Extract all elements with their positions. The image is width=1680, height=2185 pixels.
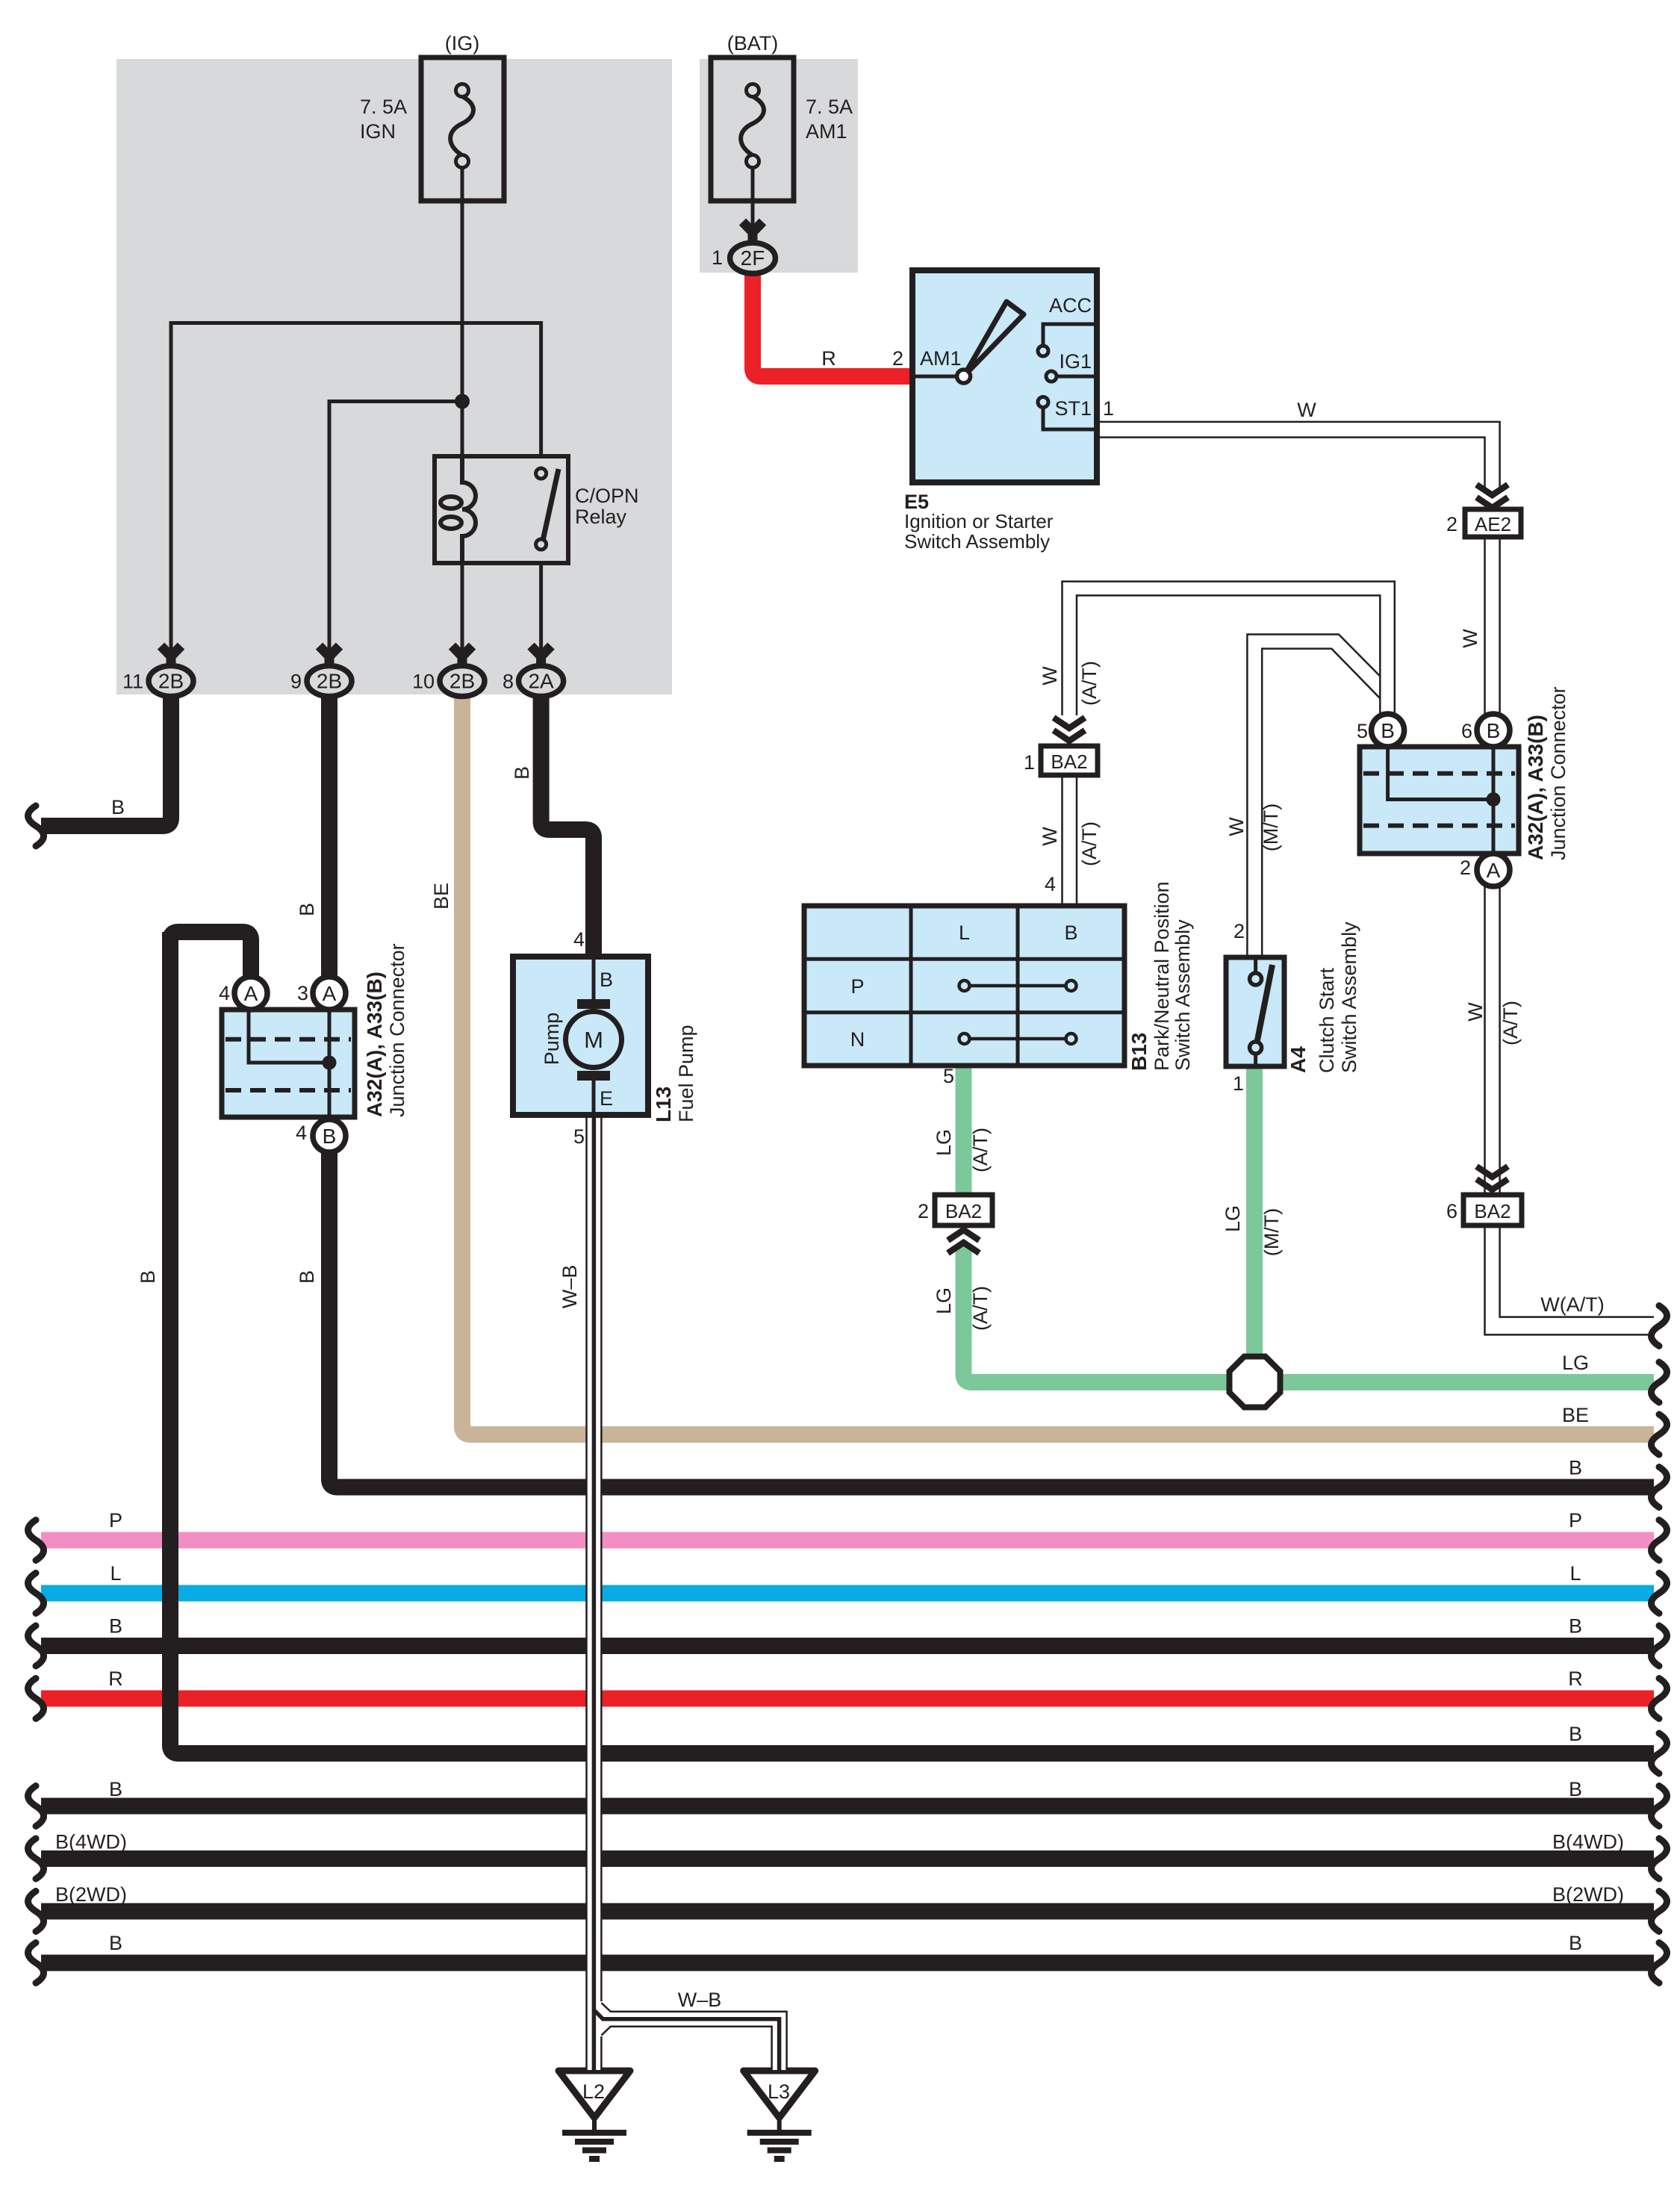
svg-text:L13: L13: [652, 1087, 675, 1122]
svg-text:2: 2: [1460, 857, 1471, 879]
svg-text:R: R: [821, 347, 836, 370]
svg-text:Ignition or Starter: Ignition or Starter: [904, 510, 1054, 532]
connector oval 8 2A: [519, 646, 564, 697]
svg-text:Relay: Relay: [575, 506, 627, 528]
wire LG(A/T) from B13 pin5 to 2-BA2: [956, 1066, 972, 1193]
svg-text:AM1: AM1: [806, 120, 847, 143]
svg-text:B: B: [1487, 719, 1501, 742]
svg-text:B(2WD): B(2WD): [55, 1883, 127, 1906]
svg-text:AE2: AE2: [1475, 513, 1511, 535]
svg-text:L: L: [1569, 1562, 1581, 1585]
wire LG(M/T) from A4 pin1 to octagon joint: [1246, 1065, 1263, 1379]
switch B13 park/neutral position: [804, 906, 1124, 1066]
gray block left (junction block 2): [116, 59, 672, 694]
svg-text:L: L: [110, 1562, 121, 1585]
svg-text:BE: BE: [430, 883, 452, 910]
svg-text:BE: BE: [1562, 1404, 1589, 1426]
wire W-B white underlay from fuel pump to ground L2: [587, 1118, 601, 2070]
svg-text:LG: LG: [1562, 1352, 1589, 1374]
connector box 1 BA2 with arrow: [1041, 718, 1098, 775]
gray block right (BAT fuse block): [700, 59, 858, 273]
connector circle pin2 A right junction: [1477, 854, 1510, 886]
svg-text:4: 4: [573, 928, 585, 951]
svg-text:7. 5A: 7. 5A: [806, 96, 853, 118]
fuel pump L13: [513, 957, 648, 1115]
wire break curls right edge: [1652, 1306, 1667, 1983]
fuse AM1 7.5A: [711, 57, 794, 201]
svg-text:6: 6: [1461, 720, 1472, 742]
svg-text:8: 8: [503, 671, 514, 693]
wire W from E5 ST1 to AE2 (outline pair): [1097, 422, 1500, 489]
svg-text:Clutch Start: Clutch Start: [1316, 967, 1338, 1073]
svg-text:2: 2: [1233, 920, 1245, 942]
svg-text:2B: 2B: [158, 670, 184, 693]
connector box 6 BA2 with arrow: [1463, 1166, 1522, 1225]
wire W(M/T) from clutch switch A4 up and over to pin5 wire: [1247, 635, 1379, 957]
wire bus L (blue): [41, 1585, 1654, 1602]
connector circle pin5 B right junction: [1372, 714, 1404, 747]
wire bus LG (green) from LG(A/T) vertical to right edge: [964, 1244, 1655, 1382]
svg-text:W–B: W–B: [559, 1265, 581, 1309]
wire bus B(4WD): [41, 1850, 1654, 1867]
wire W-B branch edges and stripe to L3: [601, 2003, 786, 2071]
svg-text:W: W: [1039, 827, 1061, 846]
svg-text:LG: LG: [1222, 1205, 1244, 1232]
svg-text:A4: A4: [1287, 1046, 1310, 1073]
svg-text:R: R: [108, 1667, 123, 1690]
svg-text:BA2: BA2: [1051, 750, 1087, 773]
svg-text:(M/T): (M/T): [1260, 804, 1282, 851]
wire B from 9-2B to junction connector pin3 A: [321, 681, 337, 978]
wire thin branch to 9-2B: [329, 402, 462, 662]
svg-text:B(2WD): B(2WD): [1552, 1883, 1624, 1906]
svg-text:1: 1: [1024, 751, 1035, 774]
svg-text:P: P: [109, 1509, 122, 1532]
svg-text:IGN: IGN: [360, 120, 396, 143]
wire W from AE2 to junction connector pin6 B: [1484, 537, 1486, 714]
wire thin from IG fuse to relay coil: [461, 167, 464, 459]
wire bus B (black) from 9-2B junction-connector pin4B down then right: [329, 1152, 1654, 1488]
svg-text:B: B: [1569, 1778, 1582, 1800]
junction connector A32(A),A33(B) right: [1360, 747, 1519, 854]
svg-text:B(4WD): B(4WD): [1552, 1831, 1624, 1853]
svg-text:1: 1: [712, 246, 723, 269]
wire bus B row10: [41, 1798, 1654, 1815]
svg-text:LG: LG: [933, 1129, 955, 1156]
svg-text:IG1: IG1: [1059, 350, 1092, 373]
svg-text:R: R: [1568, 1667, 1583, 1690]
svg-text:A: A: [244, 982, 258, 1005]
svg-text:L3: L3: [768, 2080, 790, 2103]
svg-text:L2: L2: [582, 2080, 605, 2103]
svg-text:B: B: [111, 796, 125, 818]
svg-text:BA2: BA2: [1474, 1200, 1511, 1222]
wire bus B(2WD): [41, 1903, 1654, 1920]
svg-text:L: L: [959, 921, 970, 944]
svg-text:B13: B13: [1127, 1033, 1151, 1071]
svg-text:(A/T): (A/T): [969, 1128, 992, 1172]
connector circle pin4 B left junction: [313, 1119, 346, 1152]
svg-text:B: B: [600, 969, 613, 991]
junction connector A32(A),A33(B) left: [222, 1010, 355, 1117]
wire R red from 2F to E5 AM1: [753, 269, 912, 376]
node octagon splice joint: [1230, 1357, 1281, 1408]
svg-text:B: B: [1381, 719, 1395, 742]
svg-text:B: B: [296, 1270, 318, 1284]
svg-text:Pump: Pump: [541, 1013, 563, 1066]
svg-text:ACC: ACC: [1049, 294, 1092, 317]
svg-text:2A: 2A: [528, 670, 554, 693]
svg-text:B: B: [511, 766, 533, 780]
svg-text:W: W: [1459, 629, 1481, 648]
wire bus B row9 from long left vertical: [170, 932, 1654, 1753]
svg-text:W–B: W–B: [678, 1989, 722, 2011]
wire bus R (red): [41, 1691, 1654, 1707]
svg-text:B: B: [137, 1270, 159, 1284]
ground L2: [559, 2071, 630, 2159]
svg-text:1: 1: [1233, 1072, 1244, 1095]
svg-text:7. 5A: 7. 5A: [360, 96, 407, 118]
svg-text:B: B: [1569, 1932, 1582, 1954]
svg-text:2: 2: [892, 347, 903, 370]
svg-text:A32(A), A33(B): A32(A), A33(B): [1524, 715, 1547, 860]
wire bus P (pink): [41, 1532, 1654, 1549]
svg-text:W: W: [1297, 399, 1316, 421]
wire W(A/T) from 1-BA2 down to B13 pin4: [1061, 775, 1063, 904]
svg-text:10: 10: [412, 671, 435, 693]
svg-text:(IG): (IG): [445, 32, 480, 55]
wire W(A/T) from 6-BA2 to right edge bus: [1485, 1225, 1655, 1334]
wire thin relay switch bottom to 8-2A: [539, 563, 543, 662]
svg-text:Junction Connector: Junction Connector: [1547, 686, 1569, 860]
svg-text:5: 5: [573, 1125, 585, 1148]
svg-text:AM1: AM1: [920, 347, 962, 370]
wire W-B edges and stripe from fuel pump: [585, 1115, 588, 2071]
wire W(A/T) loop from 1-BA2 up over to junction pin5 B: [1063, 582, 1395, 715]
svg-text:3: 3: [297, 982, 308, 1004]
svg-text:2F: 2F: [741, 246, 765, 270]
svg-text:Switch Assembly: Switch Assembly: [904, 530, 1050, 553]
svg-text:Fuel Pump: Fuel Pump: [675, 1025, 697, 1122]
connector oval 9 2B: [307, 646, 352, 697]
svg-text:(A/T): (A/T): [1078, 661, 1101, 706]
svg-text:B: B: [323, 1125, 337, 1148]
connector oval 1 2F: [730, 222, 776, 273]
wire W(A/T) from junction pin2 A to 6-BA2: [1484, 886, 1486, 1193]
svg-text:Switch Assembly: Switch Assembly: [1338, 921, 1360, 1073]
svg-text:W: W: [1039, 666, 1061, 686]
wire thin from AM1 fuse to 2F: [751, 167, 755, 246]
svg-text:B(4WD): B(4WD): [55, 1831, 127, 1853]
svg-text:W: W: [1464, 1002, 1487, 1022]
svg-text:W(A/T): W(A/T): [1540, 1293, 1604, 1316]
svg-text:A: A: [1487, 859, 1501, 882]
svg-text:W: W: [1225, 817, 1248, 836]
fuse IGN 7.5A: [421, 57, 504, 201]
svg-text:BA2: BA2: [945, 1200, 982, 1222]
svg-text:B: B: [109, 1932, 122, 1954]
svg-text:2: 2: [1446, 513, 1457, 535]
svg-text:(A/T): (A/T): [969, 1286, 992, 1331]
svg-text:4: 4: [296, 1122, 307, 1144]
svg-text:(M/T): (M/T): [1260, 1208, 1283, 1256]
svg-text:4: 4: [1045, 873, 1056, 895]
svg-text:B: B: [1064, 921, 1077, 944]
svg-text:5: 5: [943, 1065, 954, 1087]
connector oval 11 2B: [149, 646, 193, 697]
wire B from 11-2B down and left to break: [41, 681, 171, 826]
connector box 2 AE2 with arrow: [1465, 485, 1521, 537]
svg-text:Switch Assembly: Switch Assembly: [1172, 919, 1194, 1071]
svg-text:Junction Connector: Junction Connector: [386, 943, 408, 1117]
switch A4 clutch start: [1226, 957, 1284, 1066]
svg-text:B: B: [296, 903, 318, 916]
svg-text:A: A: [323, 982, 337, 1005]
connector oval 10 2B: [440, 646, 485, 697]
svg-text:5: 5: [1357, 720, 1368, 742]
svg-text:2B: 2B: [449, 670, 475, 693]
wire long black B: 11-2B stub up to inverted U: [170, 932, 251, 978]
svg-text:M: M: [584, 1027, 603, 1053]
svg-text:11: 11: [122, 671, 143, 693]
svg-text:2B: 2B: [317, 670, 342, 693]
svg-text:1: 1: [1103, 397, 1114, 420]
svg-text:6: 6: [1446, 1200, 1457, 1222]
wire bus B bottom: [41, 1955, 1654, 1971]
svg-text:A32(A), A33(B): A32(A), A33(B): [363, 972, 386, 1117]
wire bus B (black, third of lower mid group): [41, 1638, 1654, 1654]
svg-text:4: 4: [219, 982, 230, 1004]
connector circle pin3 A left junction: [313, 977, 346, 1010]
relay C/OPN: [435, 456, 568, 563]
svg-text:2: 2: [918, 1200, 929, 1222]
svg-text:C/OPN: C/OPN: [575, 485, 639, 507]
svg-text:B: B: [109, 1778, 122, 1800]
svg-text:(A/T): (A/T): [1078, 821, 1101, 866]
svg-text:B: B: [109, 1615, 122, 1638]
svg-text:(A/T): (A/T): [1499, 1001, 1522, 1045]
svg-text:B: B: [1569, 1457, 1582, 1479]
wire thin relay coil bottom to 10-2B: [461, 563, 464, 662]
wire thin top horizontal 11-2B to relay switch: [171, 323, 541, 662]
svg-text:B: B: [1569, 1615, 1582, 1638]
svg-text:Park/Neutral Position: Park/Neutral Position: [1151, 881, 1173, 1071]
svg-text:E: E: [600, 1087, 613, 1110]
ground L3: [744, 2071, 815, 2159]
connector circle pin4 A left junction: [234, 977, 267, 1010]
wire W-B white underlay branch to ground L3: [602, 2019, 780, 2070]
node junction dot on IG feed: [455, 394, 470, 409]
svg-text:B: B: [1569, 1723, 1582, 1745]
connector box 2 BA2 with arrow: [935, 1195, 992, 1253]
svg-text:P: P: [850, 975, 864, 998]
wire bus BE (tan) from 10-2B down then right: [462, 687, 1654, 1435]
svg-text:9: 9: [290, 671, 302, 693]
svg-text:(BAT): (BAT): [727, 32, 779, 55]
wire B from 8-2A jog to fuel pump pin4: [541, 681, 594, 958]
wire break curls left edge: [28, 806, 44, 1983]
svg-text:ST1: ST1: [1054, 397, 1092, 420]
switch E5 ignition: [912, 270, 1097, 482]
svg-text:P: P: [1569, 1509, 1582, 1532]
connector circle pin6 B right junction: [1477, 714, 1510, 747]
svg-text:LG: LG: [933, 1287, 955, 1314]
svg-text:N: N: [850, 1028, 865, 1051]
